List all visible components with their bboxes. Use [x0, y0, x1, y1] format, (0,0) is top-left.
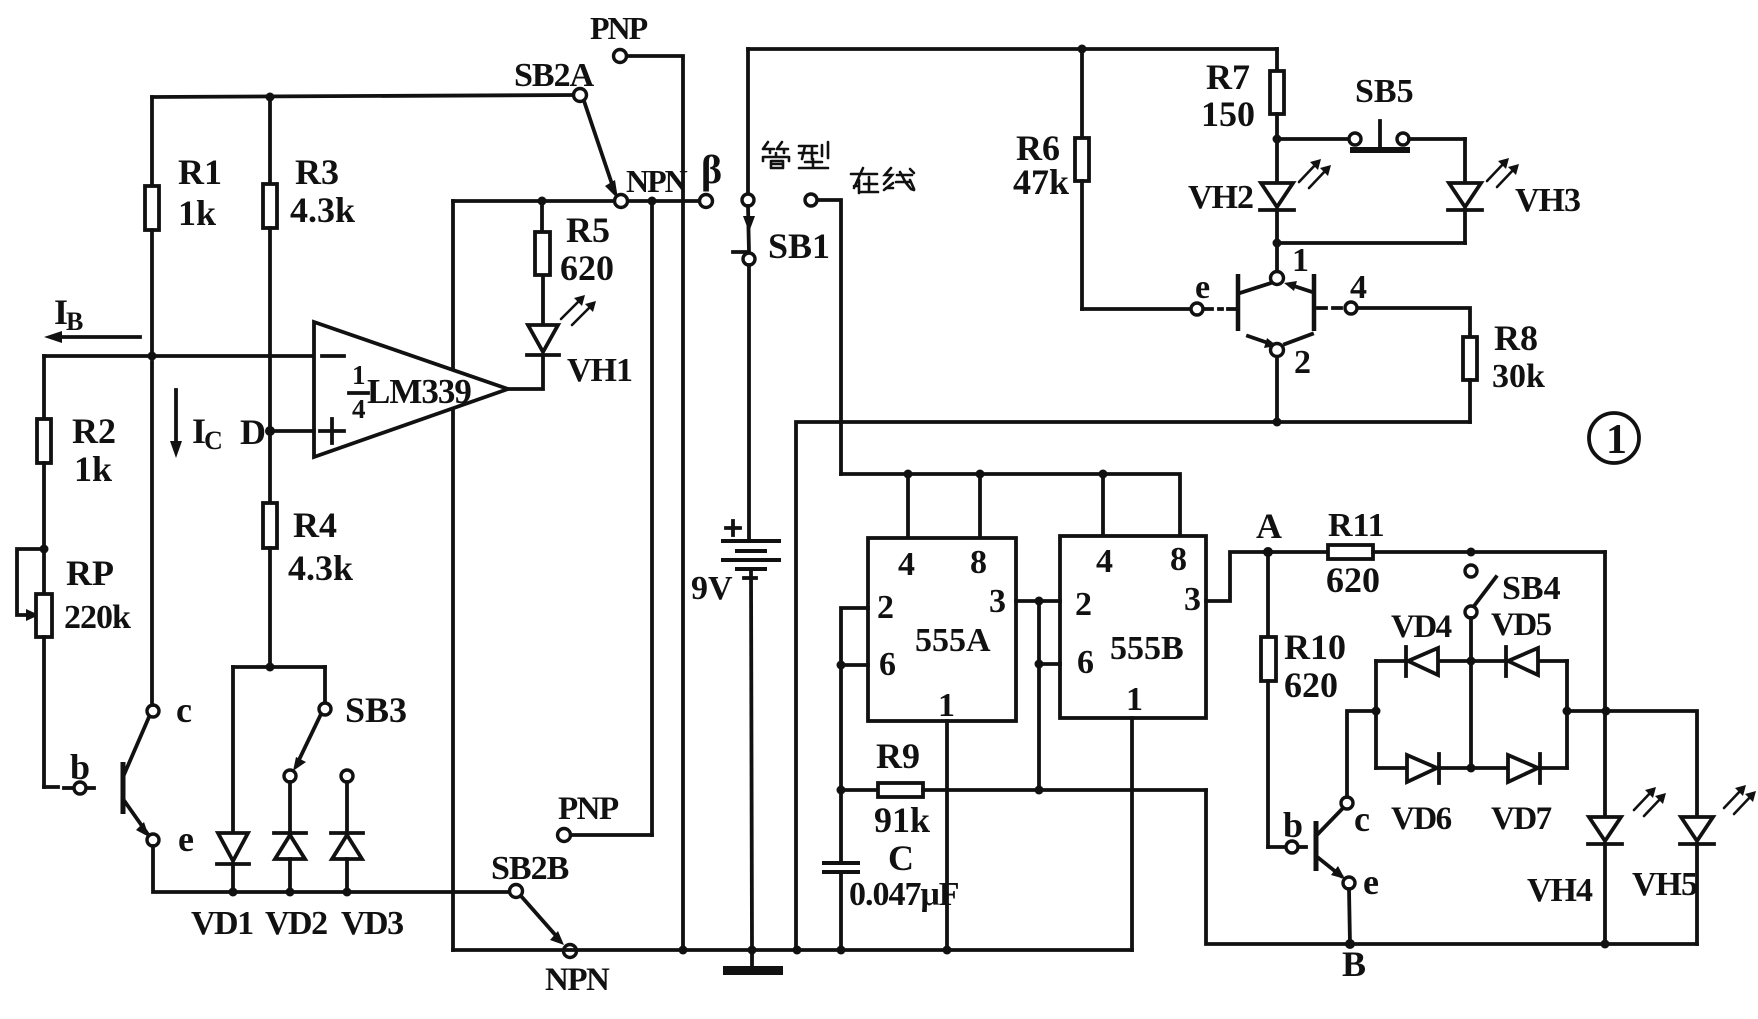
label 在线 (in-circuit)	[851, 168, 914, 193]
node battery to rail	[748, 946, 757, 955]
node R5 top junction	[538, 197, 547, 206]
wire e terminal down to diode bus	[153, 846, 509, 892]
wire LM339 output to VH1	[508, 357, 543, 389]
svg-text:91k: 91k	[874, 800, 930, 840]
node 555A pin8	[976, 470, 985, 539]
wire R9 node to B rail	[1206, 790, 1697, 944]
node A	[1256, 506, 1282, 557]
svg-text:4: 4	[1096, 543, 1113, 580]
svg-text:4.3k: 4.3k	[290, 190, 355, 230]
svg-text:VH4: VH4	[1527, 872, 1593, 909]
svg-text:2: 2	[1075, 586, 1092, 623]
svg-text:1: 1	[1606, 417, 1627, 463]
op-amp U1 1/4 LM339	[314, 322, 508, 457]
wire ground rail	[453, 948, 1132, 952]
diode VD1	[191, 667, 253, 942]
svg-text:PNP: PNP	[558, 791, 619, 827]
IC 555A	[868, 538, 1016, 724]
LED VH4	[1527, 787, 1666, 949]
svg-text:9V: 9V	[691, 570, 733, 607]
label IC with arrow	[170, 390, 223, 458]
node R7 bottom junction	[1273, 135, 1282, 144]
svg-text:SB1: SB1	[768, 226, 830, 266]
switch SB2B	[491, 850, 610, 998]
svg-text:R7: R7	[1206, 57, 1250, 97]
svg-text:C: C	[204, 426, 223, 455]
switch SB1	[733, 49, 830, 266]
wire bridge left vertical	[1372, 661, 1381, 768]
wire c terminal up to IB node	[150, 362, 154, 705]
svg-text:VD3: VD3	[341, 905, 403, 942]
diode VD5	[1491, 607, 1552, 676]
svg-text:30k: 30k	[1492, 358, 1545, 395]
potentiometer RP 220k	[17, 545, 131, 788]
svg-text:e: e	[1195, 269, 1210, 306]
wire emitter to node B	[1349, 889, 1350, 944]
LED VH5	[1632, 785, 1756, 944]
node 555A pin1 to rail	[943, 946, 952, 955]
wire NPN line to ground rail (left tall vertical)	[451, 201, 455, 950]
node PNP terminal (SB2B throw)	[558, 791, 653, 842]
diode VD4	[1391, 609, 1452, 676]
svg-text:VD7: VD7	[1491, 801, 1552, 837]
node SB4 tap	[1467, 548, 1476, 557]
node e terminal	[147, 819, 194, 859]
svg-text:A: A	[1256, 506, 1282, 546]
svg-text:R9: R9	[876, 736, 920, 776]
svg-text:1k: 1k	[74, 449, 112, 489]
wire online terminal to 555 supply rail	[818, 200, 841, 474]
svg-text:6: 6	[1077, 644, 1094, 681]
svg-text:620: 620	[1326, 560, 1380, 600]
node R3 top junction	[266, 93, 275, 102]
node NPN terminal (SB2A throw)	[615, 163, 688, 208]
svg-text:NPN: NPN	[626, 163, 688, 199]
wire 555 supply rail (pins 4/8)	[841, 474, 1180, 538]
wire collector to bridge left node	[1347, 711, 1376, 797]
node D	[240, 412, 275, 452]
svg-text:555A: 555A	[915, 622, 991, 659]
svg-text:b: b	[1283, 805, 1303, 845]
svg-text:B: B	[66, 307, 83, 336]
node c terminal	[147, 690, 192, 730]
svg-text:SB2A: SB2A	[514, 57, 595, 94]
svg-text:2: 2	[877, 589, 894, 626]
svg-text:B: B	[1342, 944, 1366, 984]
resistor R1	[145, 97, 222, 356]
svg-text:6: 6	[879, 646, 896, 683]
diode bridge top rail	[1376, 657, 1567, 666]
node R6 top junction	[1078, 45, 1087, 54]
resistor R2	[37, 356, 116, 594]
svg-text:NPN: NPN	[545, 962, 610, 998]
wire 555A pin2/pin6 feedback loop	[837, 608, 869, 863]
svg-text:555B: 555B	[1110, 630, 1184, 667]
wire VH2/VH3 cathode bus	[1273, 239, 1466, 248]
wire NPN bus line	[453, 199, 699, 203]
wire bridge right vertical	[1563, 661, 1572, 768]
wire top supply rail	[748, 47, 1277, 51]
svg-text:8: 8	[1170, 541, 1187, 578]
svg-text:VD4: VD4	[1391, 609, 1452, 645]
wire top-left rail R1 to SB2A	[152, 95, 574, 97]
resistor R11	[1268, 507, 1605, 600]
figure number circled 1	[1589, 413, 1639, 463]
svg-text:VH1: VH1	[567, 352, 632, 389]
svg-text:1: 1	[938, 687, 955, 724]
svg-text:C: C	[888, 838, 914, 878]
wire bridge center vertical	[1469, 661, 1473, 768]
svg-text:0.047μF: 0.047μF	[849, 876, 959, 913]
node b terminal	[70, 747, 90, 794]
svg-text:SB5: SB5	[1355, 73, 1414, 110]
socket pin 1	[1271, 242, 1310, 285]
svg-text:VH5: VH5	[1632, 866, 1697, 903]
svg-text:R11: R11	[1328, 507, 1385, 544]
capacitor C 0.047uF	[824, 838, 959, 950]
svg-text:VH3: VH3	[1515, 182, 1580, 219]
svg-text:e: e	[1363, 862, 1379, 902]
svg-text:RP: RP	[66, 553, 114, 593]
diode bridge bottom rail	[1376, 764, 1567, 773]
diode VD3	[331, 770, 403, 942]
svg-text:150: 150	[1201, 94, 1255, 134]
svg-text:620: 620	[1284, 665, 1338, 705]
wire R11 line down through VH4	[1603, 552, 1607, 817]
svg-text:VD1: VD1	[191, 905, 253, 942]
wire R6 to socket e terminal	[1082, 307, 1190, 311]
svg-text:R1: R1	[178, 152, 222, 192]
resistor R5	[535, 201, 614, 288]
wire 555B pin1 to ground	[1130, 718, 1134, 950]
resistor R10	[1261, 552, 1346, 847]
svg-text:c: c	[1354, 799, 1370, 839]
svg-text:VD6: VD6	[1391, 801, 1452, 837]
svg-text:220k: 220k	[64, 599, 131, 636]
svg-text:c: c	[176, 690, 192, 730]
svg-text:SB2B: SB2B	[491, 850, 569, 887]
svg-text:R5: R5	[566, 210, 610, 250]
LED VH1	[527, 275, 632, 389]
wire 555B pin3 to node A	[1206, 552, 1268, 601]
svg-text:4.3k: 4.3k	[288, 548, 353, 588]
resistor R8	[1358, 308, 1545, 422]
svg-text:R2: R2	[72, 411, 116, 451]
svg-text:D: D	[240, 412, 266, 452]
svg-text:2: 2	[1294, 344, 1311, 381]
node PNP-top link to rail	[679, 946, 688, 955]
battery 9V	[691, 265, 779, 950]
resistor R4	[263, 431, 353, 667]
transistor Q (bottom right driver)	[1268, 797, 1379, 902]
svg-text:1: 1	[1126, 681, 1143, 718]
svg-text:LM339: LM339	[367, 372, 471, 411]
svg-text:VD2: VD2	[265, 905, 327, 942]
LED VH3	[1448, 139, 1580, 243]
wire RP to base terminal (dashed)	[44, 787, 72, 788]
wire ground tap (socket pin2 / R8 return)	[796, 422, 1470, 950]
svg-text:47k: 47k	[1013, 162, 1069, 202]
diode VD2	[265, 782, 327, 942]
transistor socket (DUT under test)	[1228, 274, 1314, 348]
node capacitor C to rail	[837, 946, 846, 955]
node socket e terminal	[1191, 269, 1222, 315]
svg-text:3: 3	[1184, 581, 1201, 618]
resistor R9	[841, 736, 1206, 840]
node online terminal	[805, 194, 817, 206]
node PNP top terminal	[590, 10, 648, 63]
diode VD7	[1491, 754, 1552, 837]
svg-text:SB3: SB3	[345, 690, 407, 730]
node 555A pin4	[904, 470, 913, 539]
svg-text:PNP: PNP	[590, 10, 648, 46]
svg-text:R10: R10	[1284, 627, 1346, 667]
transistor DUT left (b c e)	[87, 717, 149, 837]
node beta terminal	[700, 147, 723, 208]
node socket 4 terminal	[1318, 269, 1367, 314]
node R1 bottom junction	[148, 352, 157, 361]
wire timing node vertical (pin3A/pin2B/pin6B/R9)	[1035, 597, 1061, 795]
svg-text:620: 620	[560, 248, 614, 288]
svg-text:3: 3	[989, 583, 1006, 620]
wire PNP top to ground rail tall vertical	[627, 56, 683, 950]
svg-text:e: e	[178, 819, 194, 859]
svg-text:1: 1	[352, 360, 366, 390]
svg-text:4: 4	[1350, 269, 1367, 306]
ground	[723, 950, 783, 975]
IC 555B	[1060, 536, 1206, 718]
svg-text:R4: R4	[293, 505, 337, 545]
node ground-tap to rail	[793, 946, 802, 955]
svg-text:R3: R3	[295, 152, 339, 192]
wire SB2B-PNP contact to NPN top line	[650, 201, 654, 835]
wire R4 bottom tee	[233, 663, 325, 672]
LED VH2	[1188, 159, 1331, 243]
wire 555A pin1 to ground	[945, 721, 949, 950]
svg-text:4: 4	[898, 546, 915, 583]
svg-text:1k: 1k	[178, 193, 216, 233]
switch SB4	[1465, 565, 1561, 661]
wire 555A pin3 to 555B pin2	[1016, 599, 1060, 603]
svg-text:VH2: VH2	[1188, 179, 1253, 216]
svg-text:8: 8	[970, 544, 987, 581]
node 555B pin4	[1099, 470, 1108, 539]
resistor R3	[263, 97, 355, 431]
resistor R6	[1013, 49, 1089, 309]
svg-text:SB4: SB4	[1502, 570, 1561, 607]
switch SB2A	[514, 57, 618, 199]
svg-text:β: β	[701, 147, 722, 192]
svg-text:b: b	[70, 747, 90, 787]
node PNP-link junction	[648, 197, 657, 206]
label IB with arrow	[44, 292, 140, 343]
wire IB input line	[44, 354, 314, 358]
socket pin 2	[1271, 344, 1312, 427]
resistor R7	[1201, 49, 1284, 183]
svg-text:1: 1	[1292, 242, 1309, 279]
svg-text:4: 4	[352, 394, 366, 424]
label 管型 (tube mode)	[763, 142, 828, 168]
node B	[1342, 939, 1366, 984]
switch SB3	[284, 667, 407, 782]
diode VD6	[1391, 754, 1452, 837]
svg-text:R8: R8	[1494, 318, 1538, 358]
svg-text:VD5: VD5	[1491, 607, 1552, 643]
switch SB5 (pushbutton)	[1277, 73, 1465, 153]
wire plus input from node D	[270, 429, 314, 433]
wire bridge output to VH5	[1567, 707, 1697, 818]
